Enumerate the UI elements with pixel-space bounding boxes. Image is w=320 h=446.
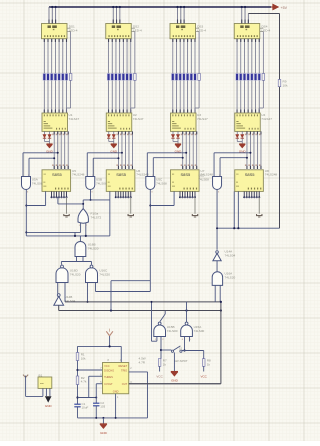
NAND gate U16D [56, 265, 81, 282]
component B1 block [38, 373, 52, 388]
AND gate column 2 input wires [87, 152, 123, 177]
resistor pack RP3 to decoder wires [173, 80, 199, 113]
counter U7 bottom stubs and junctions [179, 191, 196, 198]
svg-text:4.7k: 4.7k [81, 380, 87, 384]
AND gate U16B middle [75, 236, 99, 257]
svg-text:OUT: OUT [122, 382, 128, 386]
display DS4 segment wires [237, 32, 263, 74]
svg-text:74LS08: 74LS08 [198, 177, 209, 181]
svg-text:10k: 10k [283, 83, 288, 87]
VCC power port above 555 [106, 329, 113, 347]
timer U13 NE555 [100, 356, 146, 399]
svg-text:VCC: VCC [201, 374, 208, 378]
AND gate U16A right [212, 261, 235, 302]
power port +5V arrow [271, 4, 288, 10]
display DS2 segment wires [109, 32, 135, 74]
svg-text:▪▪: ▪▪ [236, 172, 238, 176]
wire THRES net [76, 376, 102, 404]
svg-text:▪▪: ▪▪ [172, 172, 174, 176]
svg-text:▪▪▪: ▪▪▪ [172, 184, 175, 188]
svg-text:SW-SPDT: SW-SPDT [174, 359, 188, 363]
decoder U3 74LS47 [171, 113, 208, 131]
VCC chevron port left bottom [23, 375, 28, 397]
ground below decoder U3 [175, 142, 183, 154]
ground below counter U8 [257, 197, 262, 217]
counter U8 74LS90 [235, 169, 278, 192]
svg-text:74LS08: 74LS08 [156, 181, 167, 185]
svg-text:74LS248: 74LS248 [72, 173, 85, 177]
ground below counter U6 [128, 197, 133, 217]
svg-text:+5V: +5V [281, 6, 288, 10]
svg-text:74LS72: 74LS72 [91, 215, 102, 219]
latch cross coupling wires [151, 301, 187, 341]
resistor R9 top right [248, 14, 288, 229]
display DS2 top pins to +5V bus [112, 6, 121, 24]
svg-text:74LS08: 74LS08 [96, 181, 107, 185]
display DS1 top pins to +5V bus [49, 6, 57, 24]
AND gate column 4 [198, 173, 221, 193]
decoder U4 74LS47 [235, 113, 272, 131]
counter U8 bottom stubs and junctions [243, 191, 260, 198]
counter U5 bottom stubs and junctions [51, 191, 68, 198]
svg-text:S8S5: S8S5 [52, 172, 63, 177]
display DS2 (7-seg) [106, 24, 142, 39]
NAND gate U15A latch right [181, 322, 205, 341]
svg-text:74LS47: 74LS47 [133, 117, 144, 121]
svg-text:▪▪: ▪▪ [44, 172, 46, 176]
AND gate column 4 input wires [214, 152, 251, 177]
resistor R1 [76, 353, 86, 361]
svg-text:GND: GND [113, 389, 119, 393]
resistor pack RP3 [172, 74, 201, 81]
wire U16B inputs from NAND pair [61, 257, 91, 265]
display DS1 (7-seg) [42, 24, 78, 39]
resistor pack RP1 [43, 74, 72, 81]
svg-text:CVOLT: CVOLT [104, 382, 113, 386]
wire latch vertical to 555 OUT [220, 301, 222, 384]
counter U6 bottom stubs and junctions [115, 191, 132, 198]
svg-text:▪▪▪: ▪▪▪ [236, 184, 239, 188]
svg-text:S1: S1 [179, 347, 183, 351]
decoder U2 74LS47 [106, 113, 143, 131]
resistor R7 latch left pullup [156, 359, 167, 379]
svg-text:▪▪▪▪: ▪▪▪▪ [40, 383, 44, 386]
AND gate column 1 input wires [23, 152, 59, 177]
wire 555 ground rail [78, 394, 148, 424]
svg-text:GND: GND [100, 431, 108, 435]
wire reset bus line [26, 235, 110, 237]
wire R1 to DISCHG pin [76, 361, 102, 377]
svg-text:TRIG: TRIG [121, 369, 127, 373]
resistor R2 [76, 376, 87, 385]
svg-text:74LS00: 74LS00 [167, 329, 178, 333]
wire 555 top rail [78, 345, 122, 362]
svg-text:LED-4: LED-4 [261, 28, 270, 32]
svg-text:74LS20: 74LS20 [225, 276, 236, 280]
resistor pack RP1 to decoder wires [44, 80, 70, 113]
svg-text:GND: GND [171, 378, 179, 382]
svg-text:THRES: THRES [104, 375, 113, 379]
svg-text:RESET: RESET [119, 364, 128, 368]
switch S1 SPDT [171, 346, 187, 372]
ground below decoder U1 [46, 142, 54, 154]
wire latch drive net [65, 301, 221, 303]
svg-text:DISCHG: DISCHG [104, 369, 114, 373]
display DS3 segment wires [173, 32, 199, 74]
ground below decoder U4 [239, 142, 247, 154]
power bus +5V wire [49, 6, 271, 8]
display DS3 (7-seg) [170, 24, 206, 39]
svg-text:VCC: VCC [156, 374, 163, 378]
svg-text:74LS20: 74LS20 [70, 273, 81, 277]
svg-text:74LS00: 74LS00 [194, 329, 205, 333]
AND gate column 3 input wires [147, 152, 187, 177]
svg-text:S8S5: S8S5 [245, 172, 256, 177]
svg-text:74LS08: 74LS08 [32, 181, 43, 185]
NAND gate U16C [86, 265, 111, 282]
decoder U3 indicator diodes [171, 131, 179, 141]
svg-text:74LS20: 74LS20 [88, 246, 99, 250]
svg-text:LED-4: LED-4 [197, 28, 206, 32]
svg-text:10uF: 10uF [82, 406, 89, 410]
display DS4 top pins to +5V bus [241, 6, 249, 24]
decoder U2 indicator diodes [107, 131, 115, 141]
resistor pack RP4 to decoder wires [237, 80, 263, 113]
ground below counter U5 [64, 197, 69, 217]
OR gate comparator [78, 209, 101, 227]
AND gate column 1 [22, 175, 43, 194]
wire inverter net long horizontal [59, 305, 222, 311]
wire counter4 nets to inverter [216, 190, 279, 250]
svg-text:GND: GND [45, 404, 53, 408]
NAND gate U15B latch left [154, 322, 178, 341]
svg-text:10k: 10k [81, 356, 86, 360]
decoder U2 to counter wires [116, 131, 132, 169]
decoder U4 indicator diodes [236, 131, 244, 141]
wire TRIG net [129, 372, 148, 418]
inverter U14A [213, 249, 236, 260]
resistor pack RP4 [236, 74, 265, 81]
decoder U3 to counter wires [181, 131, 197, 169]
svg-text:S8S5: S8S5 [181, 172, 192, 177]
wire gate1 output net [25, 190, 86, 236]
svg-text:▪▪▪: ▪▪▪ [44, 184, 47, 188]
svg-text:▪▪▪: ▪▪▪ [108, 184, 111, 188]
ground below switch [171, 372, 179, 383]
decoder U1 to counter wires [52, 131, 68, 169]
svg-text:▪▪: ▪▪ [108, 172, 110, 176]
resistor R8 latch right pullup [201, 359, 212, 379]
svg-text:VCC: VCC [104, 364, 110, 368]
capacitor C2 [93, 401, 105, 418]
ground below 555 [100, 424, 108, 435]
svg-text:LED-4: LED-4 [69, 28, 78, 32]
decoder U1 indicator diodes [43, 131, 51, 141]
arrow marker below B1 [45, 396, 53, 408]
svg-text:74LS04: 74LS04 [225, 253, 236, 257]
ground below counter U7 [192, 197, 197, 217]
display DS3 top pins to +5V bus [176, 6, 185, 24]
svg-text:1k: 1k [163, 363, 167, 367]
latch input wires to switch and resistors [160, 337, 204, 359]
counter U7 74LS90 [171, 169, 214, 192]
AND gate column 3 [146, 175, 167, 194]
wire gate3 output long vertical [149, 190, 174, 292]
svg-text:74LS248: 74LS248 [265, 173, 278, 177]
wire OUT net to latch [129, 383, 221, 385]
wire CVOLT net [96, 384, 102, 403]
counter U5 74LS90 [42, 169, 85, 192]
wire counter1 output to OR gate output net [58, 197, 84, 208]
wire gate2 output net [83, 190, 110, 236]
svg-text:103: 103 [100, 405, 105, 409]
svg-text:74LS47: 74LS47 [197, 117, 208, 121]
capacitor C1 [74, 402, 88, 418]
inverter U14B [54, 283, 76, 306]
svg-text:S8S5: S8S5 [116, 172, 127, 177]
counter U6 74LS90 [106, 169, 149, 192]
svg-text:4.7R: 4.7R [139, 360, 146, 364]
svg-text:74LS47: 74LS47 [261, 117, 272, 121]
display DS1 segment wires [44, 32, 70, 74]
ground below decoder U2 [110, 142, 118, 154]
display DS4 (7-seg) [234, 24, 270, 39]
svg-text:LED-4: LED-4 [133, 28, 142, 32]
decoder U4 to counter wires [245, 131, 261, 169]
AND gate column 2 [86, 175, 107, 194]
resistor pack RP2 [107, 74, 136, 81]
decoder U1 74LS47 [42, 113, 79, 131]
svg-text:74LS47: 74LS47 [69, 117, 80, 121]
wire NAND inputs nets [65, 281, 150, 311]
svg-text:74LS20: 74LS20 [99, 273, 110, 277]
wires B1 [26, 388, 50, 396]
svg-text:1k: 1k [207, 363, 211, 367]
resistor pack RP2 to decoder wires [109, 80, 135, 113]
